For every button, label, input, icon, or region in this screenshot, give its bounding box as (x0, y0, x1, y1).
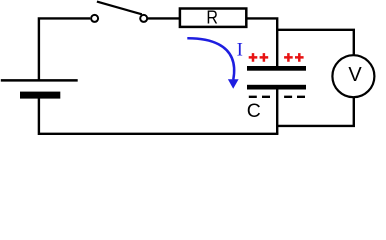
wire: capacitor bottom to bottom rail (276, 89, 278, 134)
svg-text:R: R (206, 7, 218, 28)
switch S1 right terminal (140, 15, 147, 22)
battery negative plate (short thick) (20, 92, 60, 99)
negative charge symbols -- -- (249, 96, 305, 98)
svg-text:V: V (348, 64, 362, 86)
current arrow (blue) (187, 38, 234, 79)
resistor R body (180, 9, 246, 27)
capacitor C bottom plate (247, 85, 306, 90)
wire: bottom rail (39, 98, 279, 134)
current arrowhead (228, 79, 239, 88)
wire: resistor to capacitor top (247, 18, 277, 66)
wire left: battery top to switch (39, 18, 90, 80)
voltmeter V body (332, 55, 374, 97)
battery positive plate (long thin) (1, 79, 78, 82)
capacitor C top plate (247, 66, 306, 71)
wire: branch to voltmeter top (276, 30, 354, 55)
switch S1 left terminal (91, 15, 98, 22)
wire: switch to resistor (148, 17, 180, 19)
switch S1 lever (97, 2, 142, 15)
svg-text:I: I (237, 41, 243, 61)
wire: voltmeter bottom branch (276, 97, 354, 126)
svg-text:C: C (247, 100, 261, 122)
positive charge symbols ++ ++ (249, 53, 304, 62)
